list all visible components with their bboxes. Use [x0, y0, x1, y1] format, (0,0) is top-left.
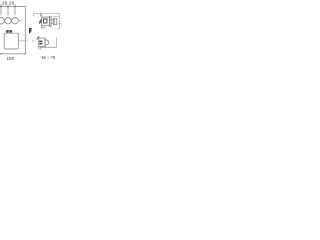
upper side view: escutcheon flange bar [50, 16, 52, 26]
dark port marks on box top [6, 30, 9, 32]
upper side view: body rectangle [42, 17, 50, 26]
upper side view: top dimension line [34, 13, 60, 15]
150 dimension line [0, 53, 25, 55]
extension tick x=15 [14, 4, 16, 15]
lower dim: tip extension vertical [56, 37, 58, 47]
150 dim end slashes [0, 53, 26, 55]
knob circle 3 [12, 18, 18, 24]
center dash right of knob 3 [19, 20, 22, 22]
center line dash right of knob [58, 23, 61, 25]
lower side view: wall line [38, 36, 40, 49]
knob circle 2 [5, 18, 11, 24]
upper side view: second faint dim line [53, 16, 60, 18]
knob circle 1 (cropped at left edge) [0, 18, 4, 24]
upper side view: wall hatch strokes [39, 19, 41, 24]
lower side view: body rectangle [39, 38, 45, 47]
upper side view: wall line [41, 14, 43, 28]
upper side view: tick at x=40.6 [40, 12, 42, 16]
lower side view: dark port bars [39, 41, 42, 43]
center dash line right of box [19, 40, 35, 42]
upper side view: knob rectangle [53, 19, 57, 25]
svg-text:150: 150 [6, 56, 14, 61]
lower dim: left extension tick below box [40, 48, 42, 50]
right vertical dimension line [58, 14, 60, 30]
lower side view: wall hatch stroke [37, 37, 39, 40]
background [0, 0, 63, 63]
extension tick x=8 [7, 4, 9, 15]
upper side view: left hook of top dim [33, 14, 35, 17]
slash ticks at dim crossings [0, 6, 15, 8]
F-like dark glyph [29, 28, 32, 33]
upper side view: body lower step [42, 27, 46, 29]
top dimension line [0, 6, 25, 8]
upper side view: stem lines [51, 20, 53, 24]
upper side view: knob inner line [54, 19, 56, 25]
svg-text:29: 29 [2, 0, 8, 5]
upper side view: cartridge dark block [44, 19, 47, 23]
extension tick x=1 [0, 4, 2, 15]
lower side view: cone knob [45, 39, 49, 45]
lower dim: 46-76 dimension line [40, 46, 56, 48]
svg-text:46 ÷ 76: 46 ÷ 76 [41, 55, 56, 60]
front view box [4, 33, 18, 49]
right extension vertical line (down to 150 dim line) [24, 7, 26, 54]
svg-text:29: 29 [9, 0, 15, 5]
